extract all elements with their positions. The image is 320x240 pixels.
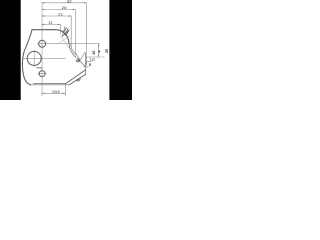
arrowheads right dim 25 bbox=[98, 44, 99, 47]
X locator mark below wedge bbox=[59, 36, 69, 48]
slanted arm inner edge bbox=[69, 74, 86, 85]
svg-text:12: 12 bbox=[91, 58, 95, 62]
extension line right of dim 32 bbox=[85, 3, 87, 65]
extension line right of dim 13 bbox=[59, 25, 61, 34]
hatched wedge pointer right bbox=[76, 58, 80, 62]
vertical centerline through holes bbox=[41, 2, 43, 96]
left black band bbox=[0, 0, 21, 100]
dimension line 21 bbox=[42, 15, 71, 17]
extension line y61.4 bbox=[86, 60, 92, 62]
dimension line 26 bbox=[42, 9, 75, 11]
svg-text:13: 13 bbox=[48, 21, 52, 25]
white drawing background bbox=[0, 0, 132, 100]
right vertical dimension line 25 bbox=[98, 44, 100, 57]
arrowhead extension 32 bottom bbox=[86, 62, 87, 65]
V mark arms bbox=[75, 52, 85, 60]
arrowheads dim 13 bbox=[42, 24, 45, 25]
part top edge bbox=[32, 29, 56, 31]
svg-text:5: 5 bbox=[89, 63, 91, 67]
extension line right of dim 21 bbox=[70, 16, 72, 46]
dimension line 32 bbox=[42, 2, 87, 4]
extension line right of dim 26 bbox=[74, 10, 76, 52]
bottom right extension line bbox=[64, 84, 66, 96]
arrowheads bottom dim bbox=[42, 93, 45, 94]
extension line y66.8 bbox=[84, 66, 89, 68]
svg-text:21: 21 bbox=[58, 13, 63, 17]
right black band bbox=[109, 0, 132, 100]
hole C2 bbox=[39, 71, 45, 77]
svg-text:20±5: 20±5 bbox=[52, 90, 60, 94]
step edge near hole C2 bbox=[37, 67, 43, 69]
top-right corner arc bbox=[56, 30, 69, 43]
arrowheads dim 32 bbox=[42, 2, 45, 3]
svg-text:25: 25 bbox=[105, 49, 109, 53]
extension line y57 bbox=[86, 56, 105, 58]
slanted arm outer edge bbox=[66, 70, 86, 84]
bottom dimension line 20±5 bbox=[42, 92, 65, 94]
right lobe edge bbox=[85, 53, 87, 74]
horizontal centerline big hole C3 bbox=[22, 57, 65, 59]
lobe diagonal edge bbox=[79, 60, 85, 66]
tick on dim line 25 bbox=[98, 51, 100, 53]
svg-text:32: 32 bbox=[67, 0, 72, 4]
dimension line 13 bbox=[42, 24, 60, 26]
right notch inner concave arc bbox=[70, 44, 76, 56]
svg-text:26: 26 bbox=[62, 6, 67, 10]
horizontal centerline hole C1 extended right bbox=[37, 43, 99, 45]
hole C1 cross ticks bbox=[38, 39, 47, 48]
part bottom edge lower line bbox=[31, 84, 70, 86]
right vertical dimension line small bbox=[90, 57, 92, 61]
big hole C3 bbox=[27, 51, 41, 65]
hatched wedge pointer top bbox=[62, 26, 69, 36]
part left curved edge bbox=[22, 30, 32, 85]
right notch outer concave arc bbox=[69, 43, 76, 57]
arrowheads dim 26 bbox=[42, 9, 45, 10]
arrowheads dim 21 bbox=[42, 15, 45, 16]
part bottom edge upper line bbox=[34, 83, 66, 85]
horizontal centerline hole C2 bbox=[38, 73, 47, 75]
vertical centerline big hole C3 bbox=[33, 50, 35, 66]
hole C1 bbox=[39, 40, 46, 47]
